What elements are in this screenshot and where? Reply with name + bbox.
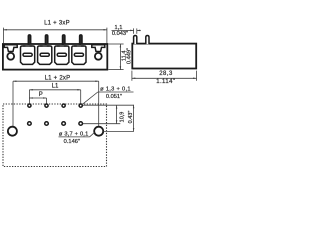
dimension L1 + 3xP — [3, 21, 107, 44]
contact pocket 2 — [38, 44, 52, 64]
svg-text:10,9: 10,9 — [120, 112, 126, 123]
annotation hole dia 3,7 — [59, 131, 95, 145]
dimension 0.43 inch — [103, 105, 134, 131]
dimension L1 + 2xP — [13, 75, 99, 126]
svg-text:ø 1,3 + 0,1: ø 1,3 + 0,1 — [100, 86, 131, 92]
svg-text:0.146": 0.146" — [64, 139, 80, 145]
svg-text:P: P — [39, 92, 43, 98]
mounting hole left — [8, 127, 17, 136]
mounting hole right — [94, 127, 103, 136]
dimension P pitch — [29, 92, 46, 103]
pin 4 front — [80, 35, 82, 44]
left flange keying trapezoid — [4, 45, 17, 52]
right flange screw hole — [95, 53, 102, 60]
contact pocket 3 — [55, 44, 69, 64]
svg-text:0.43": 0.43" — [128, 111, 134, 124]
dimension L1 — [29, 84, 80, 104]
dimension 1,1 pin width — [112, 25, 141, 37]
svg-text:0.043": 0.043" — [112, 31, 128, 37]
solder hole row 2 — [28, 122, 83, 126]
pin 2 front — [45, 35, 47, 44]
dimension 28,3 side width — [132, 71, 197, 85]
svg-text:L1: L1 — [52, 84, 59, 90]
svg-text:L1 + 3xP: L1 + 3xP — [44, 21, 70, 27]
svg-text:0.051": 0.051" — [106, 94, 122, 100]
svg-text:28,3: 28,3 — [159, 71, 173, 77]
contact pocket 4 — [72, 44, 86, 64]
PCB outline dashed — [3, 104, 107, 167]
left flange screw hole — [7, 53, 14, 60]
pin 1 front — [28, 35, 30, 44]
contact pocket 1 — [21, 44, 35, 64]
dimension 10,9 — [83, 105, 134, 124]
svg-text:L1 + 2xP: L1 + 2xP — [45, 75, 71, 81]
side pin 2 — [146, 36, 149, 45]
pin 3 front — [63, 35, 65, 44]
svg-text:1.114": 1.114" — [156, 79, 175, 85]
dimension 11,4 front height — [108, 44, 132, 70]
side view body — [132, 44, 196, 69]
annotation hole dia 1,3 — [81, 86, 133, 105]
front view body — [3, 44, 107, 70]
side pin 1 — [134, 36, 137, 45]
solder hole row 1 — [28, 104, 82, 107]
right flange keying trapezoid — [92, 45, 105, 52]
